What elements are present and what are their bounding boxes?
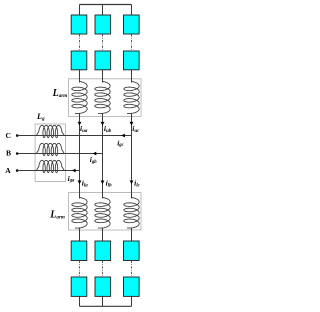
dashed wire column a lower xyxy=(79,261,81,277)
wire lower coil a to SM3a xyxy=(79,228,81,242)
wire SM2c to upper arm inductor xyxy=(131,70,133,83)
terminal A dot xyxy=(16,169,19,172)
submodule SM1b xyxy=(95,15,111,34)
terminal C dot xyxy=(16,134,19,137)
dashed wire column b lower xyxy=(102,261,104,277)
grid inductor group box L_g xyxy=(35,124,65,182)
arrow i_lc xyxy=(130,181,134,185)
grid inductor coil C xyxy=(36,125,64,137)
wire bus to SM1c xyxy=(131,5,133,16)
submodule SM4b xyxy=(95,277,111,296)
terminal B dot xyxy=(16,152,19,155)
lower arm inductor coil b xyxy=(95,198,110,229)
svg-text:B: B xyxy=(6,148,11,157)
submodule SM1c xyxy=(124,15,140,34)
wire lower coil b to SM3b xyxy=(102,228,104,242)
wire SM4b to bottom bus xyxy=(102,296,104,306)
wire SM2a to upper arm inductor xyxy=(79,70,81,83)
submodule SM4a xyxy=(71,277,87,296)
arrow i_ua xyxy=(78,122,82,126)
grid inductor coil A xyxy=(36,160,64,172)
arm wire c xyxy=(131,114,133,199)
wire SM4a to bottom bus xyxy=(79,296,81,306)
arm wire a (upper arm to lower arm) xyxy=(79,114,81,199)
svg-text:A: A xyxy=(5,166,11,175)
dashed wire column c lower xyxy=(131,261,133,277)
wire bus to SM1b xyxy=(102,5,104,16)
wire bus to SM1a xyxy=(79,5,81,16)
arrow i_la xyxy=(78,181,82,185)
submodule SM3b xyxy=(95,241,111,261)
wire lower coil c to SM3c xyxy=(131,228,133,242)
dashed wire column c upper xyxy=(131,35,133,51)
arm wire b xyxy=(102,114,104,199)
lower arm inductor coil a xyxy=(72,198,87,229)
wire phase C xyxy=(17,135,131,137)
submodule SM2a xyxy=(71,51,87,70)
arrow i_ub xyxy=(101,122,105,126)
arrow i_gb xyxy=(93,152,97,156)
submodule SM1a xyxy=(71,15,87,34)
grid inductor coil B xyxy=(36,143,64,155)
arrow i_uc xyxy=(130,122,134,126)
wire phase A xyxy=(17,170,79,172)
wire phase B xyxy=(17,153,102,155)
wire SM2b to upper arm inductor xyxy=(102,70,104,83)
upper arm inductor coil c xyxy=(124,82,139,114)
upper arm group box L_arm xyxy=(69,79,142,117)
submodule SM3c xyxy=(124,241,140,261)
wire SM4c to bottom bus xyxy=(131,296,133,306)
submodule SM3a xyxy=(71,241,87,261)
arrow i_gc xyxy=(121,134,125,138)
top DC bus wire xyxy=(80,4,132,6)
lower arm group box L_arm xyxy=(69,193,142,231)
upper arm inductor coil b xyxy=(95,82,110,114)
arrow i_lb xyxy=(101,181,105,185)
svg-text:C: C xyxy=(6,131,11,140)
lower arm inductor coil c xyxy=(124,198,139,229)
dashed wire column b upper xyxy=(102,35,104,51)
bottom DC bus wire xyxy=(80,305,132,307)
upper arm inductor coil a xyxy=(72,82,87,114)
submodule SM4c xyxy=(124,277,140,296)
submodule SM2b xyxy=(95,51,111,70)
dashed wire column a upper xyxy=(79,35,81,51)
submodule SM2c xyxy=(124,51,140,70)
arrow i_ga xyxy=(72,169,76,173)
